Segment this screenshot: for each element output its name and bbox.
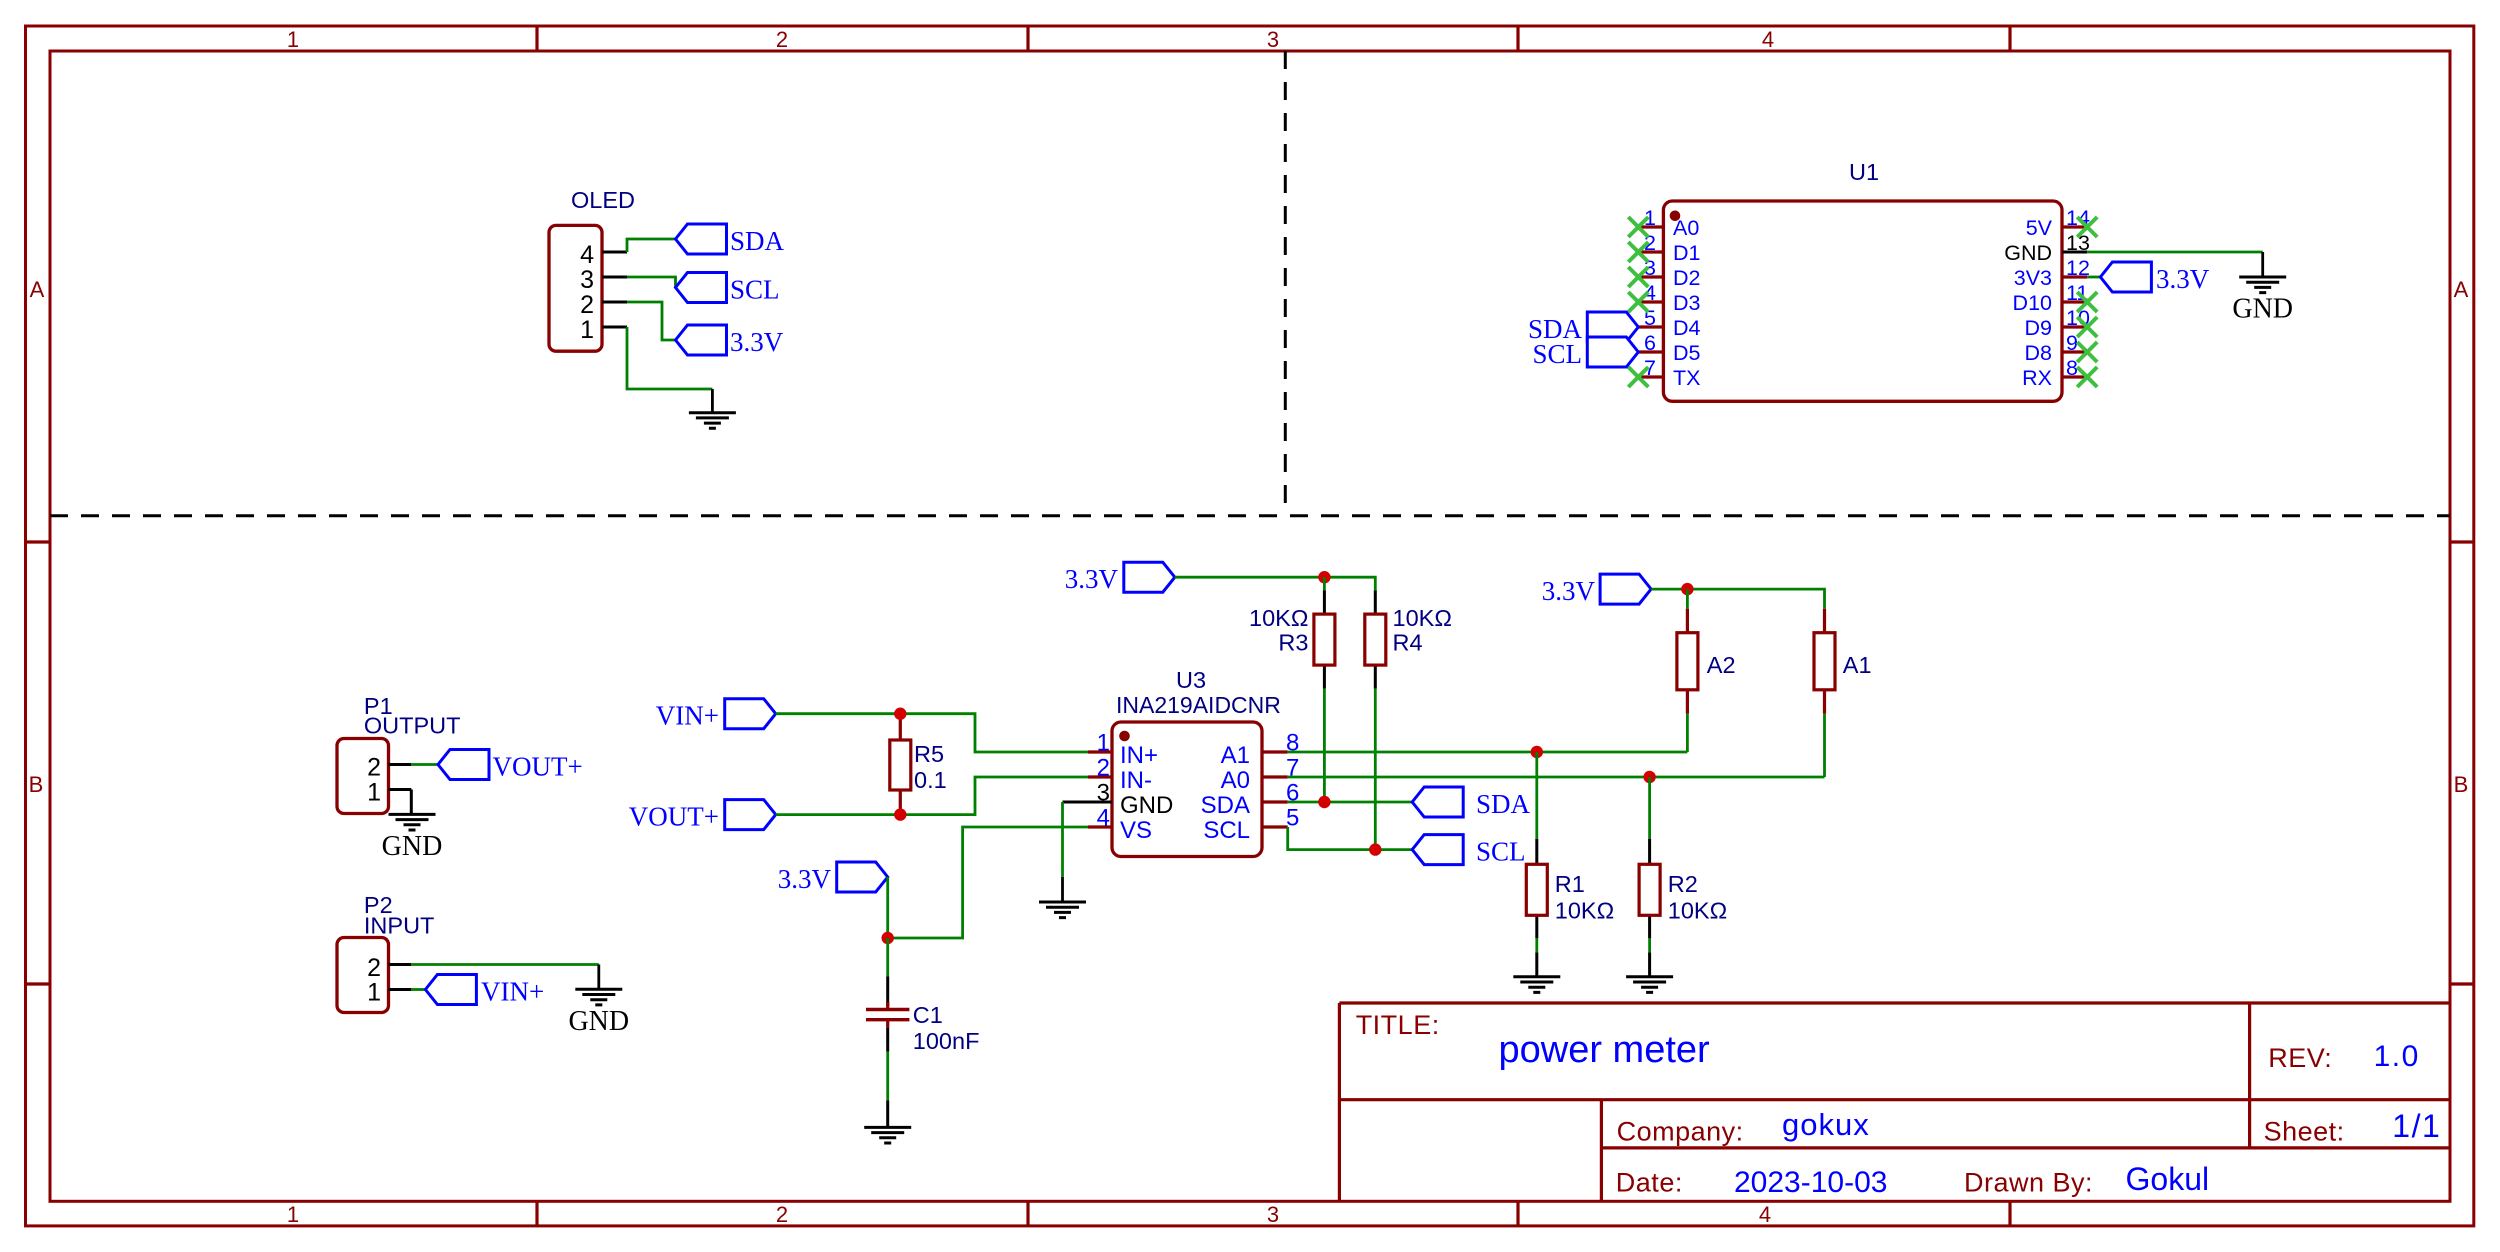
gnd stem (711, 389, 714, 413)
junction 3.3V/A2 (1681, 583, 1693, 595)
wire U3 pin5 SCL (1288, 827, 1413, 850)
ground (C1) (864, 1127, 911, 1143)
svg-text:D9: D9 (2025, 316, 2052, 340)
wire A2 top (1686, 589, 1689, 609)
junction A1net/R1 (1531, 746, 1543, 758)
net flag VOUT+ (438, 750, 489, 780)
net flag SDA (676, 224, 727, 254)
wire OLED pin3 to SCL (627, 277, 676, 288)
wire OLED pin2 to 3.3V (627, 302, 676, 340)
svg-text:1: 1 (287, 27, 299, 52)
wire VIN+ to U3 pin1 (776, 714, 1088, 752)
mcu U1 (1663, 201, 2062, 401)
net flag 3.3V (A1/A2) (1600, 574, 1651, 604)
svg-text:R5: R5 (914, 741, 944, 767)
junction SDA/R3 (1318, 796, 1330, 808)
wire OLED pin4 to SDA (627, 239, 676, 252)
wire P1 pin1 to gnd (410, 790, 413, 815)
svg-text:R4: R4 (1393, 630, 1423, 656)
svg-text:SCL: SCL (1476, 837, 1526, 867)
svg-text:SDA: SDA (730, 226, 785, 256)
svg-text:Drawn By:: Drawn By: (1964, 1168, 2093, 1198)
P1 pin stubs (388, 765, 411, 790)
junction A0net/R2 (1643, 771, 1655, 783)
wire P1 pin2 to VOUT+ (411, 763, 438, 766)
net flag SDA (1412, 787, 1463, 817)
gnd stem (2261, 252, 2264, 277)
ic U3 INA219AIDCNR (1112, 722, 1262, 857)
svg-text:A0: A0 (1673, 216, 1699, 240)
svg-text:IN+: IN+ (1120, 742, 1158, 769)
connector OLED (549, 225, 602, 351)
svg-text:GND: GND (568, 1006, 629, 1037)
gnd stem (597, 965, 600, 990)
ground (OLED) (689, 413, 736, 429)
title block (1339, 1003, 2450, 1201)
wire U3 pin7 A0 net (1288, 776, 1825, 779)
svg-text:D10: D10 (2013, 291, 2052, 315)
svg-text:6: 6 (1644, 331, 1656, 355)
svg-text:REV:: REV: (2268, 1043, 2332, 1073)
svg-text:A: A (2454, 277, 2469, 302)
wire U3 pin3 GND (1063, 801, 1089, 804)
net flag SCL at U1 pin6 (1587, 337, 1638, 367)
junction SCL/R4 (1369, 843, 1381, 855)
svg-text:2: 2 (580, 291, 594, 319)
svg-text:1: 1 (367, 779, 381, 807)
svg-text:1: 1 (287, 1202, 299, 1227)
net flag 3.3V (676, 325, 727, 355)
resistor R5 0.1 shunt (899, 714, 902, 815)
wire VOUT+ to U3 pin2 (776, 777, 1088, 815)
junction 3.3V/R3 (1318, 571, 1330, 583)
svg-text:IN-: IN- (1120, 767, 1152, 794)
svg-text:10KΩ: 10KΩ (1249, 605, 1308, 631)
svg-text:A0: A0 (1221, 767, 1250, 794)
svg-text:B: B (29, 772, 44, 797)
svg-text:VS: VS (1120, 817, 1152, 844)
net flag 3.3V (VS) (837, 862, 888, 892)
resistor R4 10K (1374, 590, 1377, 688)
svg-text:3: 3 (1267, 27, 1279, 52)
wire R3 top (1323, 577, 1326, 590)
wire R1 top (1535, 752, 1538, 839)
svg-text:D2: D2 (1673, 266, 1700, 290)
ground (R2) (1626, 977, 1673, 993)
svg-text:TITLE:: TITLE: (1356, 1010, 1440, 1040)
wire R3 to SDA (1323, 689, 1326, 802)
net flag SDA at U1 pin5 (1587, 312, 1638, 342)
svg-text:2: 2 (367, 754, 381, 782)
svg-text:SDA: SDA (1201, 792, 1250, 819)
svg-text:A1: A1 (1221, 742, 1250, 769)
ground GND (U1) (2232, 277, 2293, 325)
svg-text:2: 2 (776, 27, 788, 52)
svg-text:4: 4 (580, 241, 594, 269)
svg-text:SDA: SDA (1476, 789, 1531, 819)
svg-text:U3: U3 (1176, 667, 1206, 693)
no-connect X pins 1-4,7 (1628, 217, 1648, 237)
junction VOUT+/R5 (894, 808, 906, 820)
svg-text:D8: D8 (2025, 341, 2053, 365)
svg-text:2023-10-03: 2023-10-03 (1734, 1166, 1887, 1199)
svg-text:OUTPUT: OUTPUT (364, 713, 461, 739)
svg-text:10KΩ: 10KΩ (1393, 605, 1452, 631)
svg-text:4: 4 (1097, 805, 1110, 832)
svg-text:SCL: SCL (1532, 339, 1582, 369)
svg-text:3.3V: 3.3V (730, 327, 784, 357)
svg-text:0.1: 0.1 (914, 767, 947, 793)
wire gnd vertical (1061, 802, 1064, 877)
svg-text:5V: 5V (2026, 216, 2053, 240)
svg-text:D1: D1 (1673, 241, 1700, 265)
svg-text:R3: R3 (1278, 630, 1308, 656)
svg-text:Sheet:: Sheet: (2264, 1117, 2345, 1147)
svg-text:R1: R1 (1555, 871, 1585, 897)
svg-text:A2: A2 (1707, 652, 1736, 678)
svg-text:3.3V: 3.3V (1065, 564, 1119, 594)
svg-text:Gokul: Gokul (2126, 1161, 2210, 1197)
U3 right pin stubs (1262, 752, 1288, 827)
wire U3 pin6 SDA (1288, 801, 1413, 804)
net flag SCL (1412, 835, 1463, 865)
U3 pin1 marker dot (1119, 731, 1130, 742)
P2 pin stubs (388, 965, 411, 990)
wire C1 to gnd (886, 1027, 889, 1127)
svg-text:3V3: 3V3 (2014, 266, 2052, 290)
svg-text:INPUT: INPUT (364, 913, 435, 939)
svg-text:SCL: SCL (1203, 817, 1250, 844)
svg-text:3.3V: 3.3V (1542, 576, 1596, 606)
svg-text:VIN+: VIN+ (481, 977, 544, 1007)
svg-text:1: 1 (367, 979, 381, 1007)
ground (R1) (1513, 977, 1560, 993)
no-connect X pins 14,11,10,9,8 (2077, 217, 2097, 237)
svg-text:1: 1 (580, 316, 594, 344)
wire green segment R1 (1535, 938, 1538, 952)
svg-text:Date:: Date: (1616, 1168, 1683, 1198)
svg-text:VOUT+: VOUT+ (493, 752, 583, 782)
svg-text:2: 2 (776, 1202, 788, 1227)
dashed partition lines (50, 514, 2450, 517)
wire A1 bottom (1823, 714, 1826, 777)
svg-text:A: A (30, 277, 45, 302)
wire green segment (886, 1052, 889, 1101)
svg-text:3: 3 (1097, 780, 1110, 807)
svg-text:B: B (2454, 772, 2469, 797)
svg-text:4: 4 (1759, 1202, 1771, 1227)
svg-text:INA219AIDCNR: INA219AIDCNR (1116, 692, 1281, 718)
wire P2 pin2 to gnd (411, 963, 599, 966)
wire U3 pin8 A1 net (1288, 751, 1688, 754)
wire OLED pin1 to GND (627, 327, 712, 389)
svg-text:Company:: Company: (1617, 1117, 1744, 1147)
net flag VIN+ (425, 975, 476, 1005)
svg-text:1.0: 1.0 (2374, 1040, 2420, 1073)
svg-text:4: 4 (1762, 27, 1774, 52)
resistor A1 (1823, 609, 1826, 714)
gnd stem (1061, 877, 1064, 902)
wire junction to C1 (886, 938, 889, 977)
svg-text:R2: R2 (1668, 871, 1698, 897)
svg-text:A1: A1 (1843, 652, 1872, 678)
svg-text:D4: D4 (1673, 316, 1701, 340)
wire R2 top (1648, 777, 1651, 839)
svg-text:GND: GND (2232, 294, 2293, 325)
wire A2 bottom (1686, 714, 1689, 752)
svg-text:U1: U1 (1849, 159, 1879, 185)
U3 left pin stubs (1088, 752, 1112, 827)
svg-text:100nF: 100nF (913, 1028, 980, 1054)
svg-text:C1: C1 (913, 1002, 943, 1028)
wire U3 pin4 VS to 3.3V (888, 827, 1088, 938)
svg-text:GND: GND (1120, 792, 1173, 819)
net flag VIN+ (to shunt) (725, 699, 776, 729)
wire U1 pin13 to GND (2087, 251, 2263, 254)
connector P1 OUTPUT (337, 739, 389, 814)
wire 3.3V rail to R4 (1175, 577, 1376, 590)
svg-text:gokux: gokux (1782, 1107, 1870, 1142)
svg-text:VOUT+: VOUT+ (629, 802, 719, 832)
svg-text:RX: RX (2022, 366, 2052, 390)
svg-text:OLED: OLED (571, 187, 635, 213)
U1 right pin stubs (2062, 227, 2087, 377)
svg-text:D3: D3 (1673, 291, 1701, 315)
wire U1 pin12 to 3.3V (2087, 276, 2100, 279)
net flag SCL (676, 273, 727, 303)
svg-text:12: 12 (2066, 256, 2090, 280)
svg-text:GND: GND (382, 831, 443, 862)
OLED pin stubs (602, 252, 627, 327)
svg-text:10KΩ: 10KΩ (1555, 898, 1614, 924)
svg-text:1: 1 (1097, 730, 1110, 757)
svg-text:2: 2 (1097, 755, 1110, 782)
junction VIN+/R5 (894, 708, 906, 720)
svg-text:10KΩ: 10KΩ (1668, 898, 1727, 924)
svg-text:D5: D5 (1673, 341, 1701, 365)
net flag 3.3V at U1 pin12 (2100, 262, 2151, 292)
svg-text:GND: GND (2004, 241, 2052, 265)
svg-text:1/1: 1/1 (2392, 1108, 2441, 1144)
svg-text:3.3V: 3.3V (778, 864, 832, 894)
junction VS/C1 (882, 932, 894, 944)
connector P2 INPUT (337, 938, 389, 1013)
ground GND (P2) (568, 989, 629, 1037)
wire 3.3V to A1 (1651, 589, 1824, 609)
svg-text:TX: TX (1673, 366, 1700, 390)
U1 pin1 marker dot (1670, 211, 1681, 222)
svg-text:power meter: power meter (1499, 1029, 1711, 1071)
wire 3.3V flag down (886, 877, 889, 938)
ground GND (P1) (382, 814, 443, 862)
U1 left pin stubs (1638, 227, 1663, 377)
svg-text:3: 3 (1267, 1202, 1279, 1227)
svg-text:SCL: SCL (730, 275, 780, 305)
wire green segment R2 (1648, 938, 1651, 952)
net flag VOUT+ (to shunt) (725, 800, 776, 830)
svg-text:3: 3 (580, 266, 594, 294)
svg-text:3.3V: 3.3V (2156, 264, 2210, 294)
ground (U3) (1039, 902, 1086, 918)
svg-text:VIN+: VIN+ (656, 701, 719, 731)
svg-text:9: 9 (2066, 331, 2078, 355)
wire R4 to SCL (1374, 689, 1377, 850)
wire P2 pin1 to VIN+ (411, 988, 425, 991)
net flag 3.3V (pullups) (1124, 562, 1175, 592)
